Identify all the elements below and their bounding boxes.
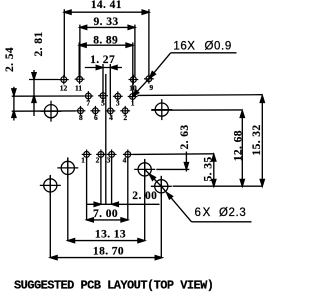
dimension 12.68 line: [240, 111, 244, 187]
svg-text:2. 63: 2. 63: [179, 125, 191, 150]
extension line hole C6: [160, 177, 162, 258]
svg-text:3: 3: [107, 156, 111, 165]
svg-text:2: 2: [96, 156, 100, 165]
svg-text:1. 27: 1. 27: [90, 54, 115, 66]
svg-text:18. 70: 18. 70: [93, 246, 124, 258]
part centerline: [105, 74, 107, 204]
hole C1: [41, 101, 62, 122]
svg-text:11: 11: [75, 83, 82, 92]
dimension 18.70 line: [50, 256, 162, 260]
dimension 8.89 line: [79, 42, 133, 93]
pad 1: [128, 92, 138, 102]
pad 10: [129, 75, 139, 85]
centerline pad row 7-5-3-1: [12, 95, 84, 97]
svg-text:4: 4: [109, 113, 113, 122]
svg-text:5: 5: [101, 98, 105, 107]
dimension 7.00 line: [87, 218, 128, 222]
extension line bottom pad 3: [111, 158, 113, 204]
svg-text:SUGGESTED PCB LAYOUT(TOP VIEW): SUGGESTED PCB LAYOUT(TOP VIEW): [14, 278, 214, 292]
centerline pad row 8-6-4-2 and side holes: [12, 110, 76, 112]
svg-text:9: 9: [149, 83, 153, 92]
pad 12: [59, 75, 69, 85]
svg-text:8. 89: 8. 89: [93, 35, 118, 47]
svg-text:12: 12: [60, 83, 68, 92]
svg-text:1: 1: [81, 156, 85, 165]
leader 16x0.9: [131, 53, 236, 98]
dimension 14.41 line: [64, 9, 149, 77]
hole C3: [57, 157, 78, 178]
hole C4: [134, 159, 155, 180]
dimension 2.63 line: [184, 152, 188, 172]
dimension 2.00 line: [87, 202, 160, 206]
svg-text:9. 33: 9. 33: [94, 16, 119, 28]
svg-text:1: 1: [131, 98, 135, 107]
pad 4: [106, 106, 116, 116]
pad 7: [84, 91, 94, 101]
extension line bottom pad 2: [100, 158, 102, 204]
svg-text:2. 00: 2. 00: [132, 190, 157, 202]
dimension 2.81 line: [32, 70, 36, 116]
svg-text:15. 32: 15. 32: [251, 124, 263, 155]
dimension 1.27 line: [85, 64, 122, 107]
svg-text:3: 3: [116, 98, 120, 107]
dimension 5.35 line: [212, 154, 216, 186]
dimension 13.13 line: [68, 239, 145, 243]
svg-text:7: 7: [86, 98, 90, 107]
svg-text:8: 8: [79, 113, 83, 122]
svg-text:5. 35: 5. 35: [203, 157, 215, 182]
svg-text:6XØ2.3: 6XØ2.3: [195, 207, 247, 219]
extension line bottom pad 1: [86, 158, 88, 220]
centerline bottom holes row: [173, 185, 263, 187]
pad 5: [98, 91, 108, 101]
extension line hole C4: [144, 160, 146, 241]
dimension 15.32 line: [260, 96, 264, 187]
pad 8: [76, 106, 86, 116]
pad 6: [91, 106, 101, 116]
pad 3: [113, 91, 123, 101]
centerline pads 12-11: [29, 79, 59, 81]
hole C5: [40, 175, 61, 196]
centerline bottom pad row: [133, 153, 214, 156]
svg-text:13. 13: 13. 13: [95, 228, 126, 240]
dimension 9.33 line: [80, 25, 135, 78]
svg-text:2. 54: 2. 54: [4, 47, 16, 72]
svg-text:4: 4: [123, 156, 127, 165]
svg-text:14. 41: 14. 41: [91, 0, 122, 11]
bottom pad 1: [82, 150, 92, 160]
svg-text:2: 2: [123, 113, 127, 122]
pad 11: [75, 74, 85, 84]
pad 2: [120, 106, 130, 116]
extension line bottom pad 4: [127, 158, 129, 220]
svg-text:12. 68: 12. 68: [233, 130, 245, 161]
bottom pad 4: [123, 150, 133, 160]
hole C6: [151, 176, 172, 197]
bottom pad 2: [96, 150, 106, 160]
bottom pad 3: [107, 150, 117, 160]
dimension 2.54 line: [12, 87, 16, 121]
svg-text:10: 10: [129, 84, 137, 93]
svg-text:6: 6: [94, 113, 98, 122]
centerline right inner hole: [156, 168, 189, 170]
extension line hole C5: [49, 176, 51, 258]
extension line hole C3: [67, 158, 69, 240]
leader 6x2.3: [145, 169, 252, 221]
pad 9: [144, 74, 154, 84]
hole C2: [151, 99, 172, 120]
svg-text:2. 81: 2. 81: [33, 32, 45, 57]
svg-text:7. 00: 7. 00: [93, 208, 118, 220]
